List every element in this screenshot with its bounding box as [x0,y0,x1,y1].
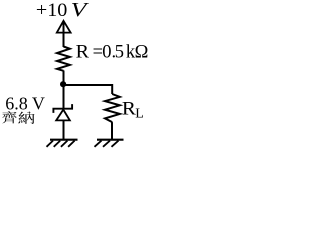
svg-text:+10: +10 [36,0,67,21]
svg-text:L: L [135,107,144,122]
svg-text:5: 5 [115,43,124,63]
svg-text:R: R [76,43,90,63]
svg-text:Ω: Ω [135,43,149,63]
svg-text:V: V [71,0,90,21]
svg-text:R: R [122,98,136,119]
svg-text:6.8 V: 6.8 V [5,94,45,114]
